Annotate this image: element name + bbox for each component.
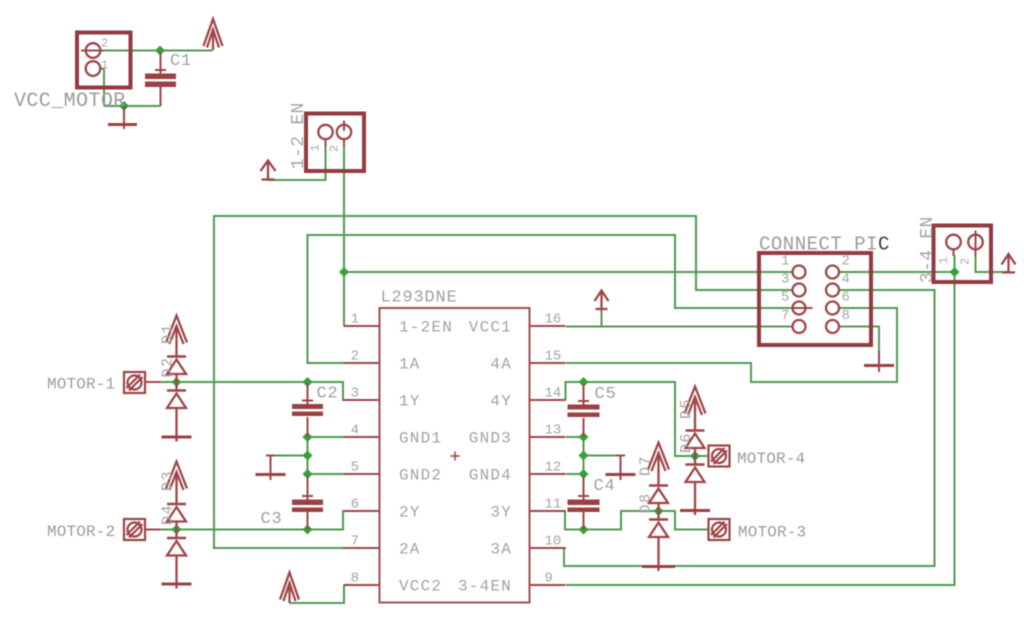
power VCC arrow (IC pin8 VCC2 net) <box>280 573 299 604</box>
diode D6 <box>686 456 705 515</box>
pin 16 (VCC1) <box>530 325 566 327</box>
svg-text:D4: D4 <box>160 504 177 525</box>
screw terminal MOTOR-2 <box>124 519 160 540</box>
power VCC arrow (diode D7 column) <box>648 443 669 486</box>
svg-text:CONNECT_PIC: CONNECT_PIC <box>759 234 890 256</box>
svg-text:VCC2: VCC2 <box>399 578 442 596</box>
wire 3-4EN pin2 to VCC arrow <box>976 255 1009 272</box>
IC U1 L293DNE body <box>380 308 530 603</box>
svg-text:4: 4 <box>842 272 850 288</box>
svg-text:1-2EN: 1-2EN <box>399 319 453 337</box>
wire VCC arrow stem at pin16 net <box>601 309 603 327</box>
connector 3-4 EN <box>934 226 992 283</box>
wire GND run to C1 bottom <box>104 105 161 107</box>
wire net EN12 to CONNECT_PIC pin1 <box>344 271 793 273</box>
wire ground branch right <box>584 455 621 457</box>
svg-text:MOTOR-4: MOTOR-4 <box>737 450 805 468</box>
ground (left capacitor chain) <box>256 456 286 481</box>
power VCC arrow (1-2EN pin1) <box>261 161 276 181</box>
wire GND chain right C5-C4 <box>583 437 585 474</box>
ground (CONNECT_PIC pin8) <box>864 351 894 372</box>
wire IC pin14 4Y to MOTOR-4 <box>566 382 709 456</box>
svg-text:2Y: 2Y <box>399 504 421 522</box>
capacitor C4 <box>568 476 600 530</box>
svg-text:C2: C2 <box>317 385 339 404</box>
diode D8 <box>649 511 668 571</box>
svg-text:5: 5 <box>781 290 789 306</box>
IC origin cross <box>451 452 460 461</box>
wire IC pin12 GND4 <box>566 473 584 475</box>
svg-text:6: 6 <box>842 290 850 306</box>
power VCC arrow (diode D1 column) <box>166 316 187 357</box>
pin 15 (4A) <box>530 362 566 364</box>
wire IC pin10 3A to CONNECT_PIC pin4 <box>564 290 935 566</box>
screw terminal MOTOR-4 <box>709 446 730 467</box>
junction node MOTOR-1 at C2 <box>303 377 313 387</box>
wire CONNECT_PIC pin8 to ground <box>839 327 880 352</box>
power VCC arrow (IC pin16 VCC1 net) <box>595 291 609 310</box>
junction node MOTOR-1 at diodes <box>172 377 182 387</box>
svg-text:1: 1 <box>781 254 789 270</box>
pin 8 (VCC2) <box>344 584 380 586</box>
svg-text:13: 13 <box>545 423 562 439</box>
svg-text:GND2: GND2 <box>399 467 442 485</box>
svg-text:D6: D6 <box>678 432 695 453</box>
svg-text:VCC1: VCC1 <box>469 319 512 337</box>
pin 12 (GND4) <box>530 473 566 475</box>
ground (diode D4) <box>162 583 192 586</box>
svg-text:1: 1 <box>309 144 323 151</box>
svg-text:GND4: GND4 <box>469 467 512 485</box>
svg-text:D3: D3 <box>160 470 177 491</box>
svg-text:5: 5 <box>351 460 359 476</box>
wire 3-4EN pin1 down to IC pin9 <box>566 255 955 585</box>
svg-text:1: 1 <box>937 257 951 264</box>
capacitor C3 <box>292 476 323 530</box>
wire IC pin5 GND2 <box>308 473 344 475</box>
ground (C1 / VCC_MOTOR pin1) <box>108 106 137 129</box>
svg-text:4A: 4A <box>490 356 512 374</box>
wire IC pin16 VCC1 to CONNECT_PIC pin7 <box>566 326 793 328</box>
svg-text:C4: C4 <box>594 477 616 496</box>
pin 7 (2A) <box>344 547 380 549</box>
wire IC pin2 1A to CONNECT_PIC pin5 <box>308 235 793 363</box>
svg-text:16: 16 <box>545 312 562 328</box>
pin 2 (1A) <box>344 362 380 364</box>
svg-text:2: 2 <box>328 145 342 152</box>
junction node GND1 <box>303 432 313 442</box>
svg-text:L293DNE: L293DNE <box>381 289 458 308</box>
svg-text:14: 14 <box>545 386 562 402</box>
wire CONNECT_PIC pin2 to 3-4EN pin1 junction <box>839 271 955 273</box>
junction node MOTOR-3 at diodes <box>654 506 664 516</box>
svg-text:3-4EN: 3-4EN <box>458 578 512 596</box>
svg-text:MOTOR-3: MOTOR-3 <box>738 524 806 542</box>
wire 1-2EN pin2 down to IC pin1 <box>343 146 345 326</box>
connector CONNECT_PIC <box>759 253 871 345</box>
svg-text:D1: D1 <box>160 323 177 344</box>
svg-text:C5: C5 <box>595 385 617 404</box>
svg-text:MOTOR-1: MOTOR-1 <box>47 376 115 394</box>
svg-text:D2: D2 <box>160 356 177 377</box>
diode D1 <box>167 357 186 383</box>
svg-text:MOTOR-2: MOTOR-2 <box>47 523 115 541</box>
svg-text:4Y: 4Y <box>490 393 512 411</box>
wire ground branch left <box>271 455 308 457</box>
diode D4 <box>167 530 186 589</box>
svg-text:2: 2 <box>959 258 973 265</box>
junction node EN12 <box>339 267 349 277</box>
connector VCC_MOTOR <box>77 33 131 88</box>
wire IC pin13 GND3 <box>566 436 584 438</box>
svg-text:4: 4 <box>351 423 359 439</box>
capacitor C2 <box>292 384 323 437</box>
svg-text:1: 1 <box>101 59 108 73</box>
pin 3 (1Y) <box>344 399 380 401</box>
junction node MOTOR-2 at C3 <box>303 525 313 535</box>
junction node gnd-branch left <box>303 451 313 461</box>
svg-text:VCC_MOTOR: VCC_MOTOR <box>14 90 126 113</box>
wire IC pin15 4A to CONNECT_PIC pin6 <box>566 308 897 382</box>
junction node 4Y at C5 <box>579 377 589 387</box>
svg-text:1-2 EN: 1-2 EN <box>289 102 309 169</box>
junction node C1 top <box>155 46 165 56</box>
svg-text:D7: D7 <box>638 455 655 476</box>
pin 11 (3Y) <box>530 510 566 512</box>
svg-text:7: 7 <box>351 534 359 550</box>
power VCC arrow (top, VCC_MOTOR net) <box>204 19 223 50</box>
svg-text:9: 9 <box>545 571 553 587</box>
svg-text:10: 10 <box>545 534 562 550</box>
junction node GND4 <box>579 469 589 479</box>
junction node EN34 <box>950 267 960 277</box>
pin 13 (GND3) <box>530 436 566 438</box>
svg-text:8: 8 <box>351 571 359 587</box>
wire GND chain left C2-C3 <box>307 437 309 474</box>
svg-text:3Y: 3Y <box>490 504 512 522</box>
wire 1-2EN pin1 to VCC arrow <box>268 146 326 180</box>
svg-text:12: 12 <box>545 460 562 476</box>
wire IC pin11 3Y to MOTOR-3 <box>565 511 709 530</box>
svg-text:11: 11 <box>545 497 562 513</box>
pin 14 (4Y) <box>530 399 566 401</box>
capacitor C5 <box>568 384 600 437</box>
wire IC pin4 GND1 <box>308 436 344 438</box>
junction node C1 gnd <box>119 101 129 111</box>
diode D3 <box>167 504 186 530</box>
svg-text:1A: 1A <box>399 356 421 374</box>
svg-text:D8: D8 <box>638 492 655 513</box>
screw terminal MOTOR-3 <box>709 519 730 540</box>
pin 5 (GND2) <box>344 473 380 475</box>
wire IC pin7 2A to CONNECT_PIC pin3 <box>214 216 793 548</box>
junction node gnd-branch right <box>579 451 589 461</box>
pin 10 (3A) <box>530 547 566 549</box>
power VCC arrow (diode D3 column) <box>166 462 187 505</box>
wire MOTOR-2 to IC pin6 2Y <box>160 511 345 530</box>
svg-text:15: 15 <box>545 349 562 365</box>
junction node MOTOR-2 at diodes <box>172 525 182 535</box>
svg-text:D5: D5 <box>678 398 695 419</box>
svg-text:1: 1 <box>351 312 359 328</box>
diode D2 <box>167 382 186 442</box>
pin 4 (GND1) <box>344 436 380 438</box>
wire MOTOR-1 to IC pin3 1Y <box>160 382 345 400</box>
svg-text:3: 3 <box>351 386 359 402</box>
diode D5 <box>686 431 705 457</box>
svg-text:6: 6 <box>351 497 359 513</box>
ground (diode D6) <box>680 509 710 512</box>
diode D7 <box>649 486 668 512</box>
ground (diode D2) <box>162 436 192 439</box>
pin 6 (2Y) <box>344 510 380 512</box>
connector 1-2 EN <box>306 114 364 172</box>
svg-text:GND1: GND1 <box>399 430 442 448</box>
junction node MOTOR-4 at diodes <box>690 451 700 461</box>
pin 1 (1-2EN) <box>344 325 380 327</box>
capacitor C1 <box>145 52 176 106</box>
junction node MOTOR-3 at C4 <box>579 525 589 535</box>
svg-text:3: 3 <box>781 272 789 288</box>
ground (diode D8) <box>642 565 675 568</box>
svg-text:7: 7 <box>781 308 789 324</box>
svg-text:8: 8 <box>842 308 850 324</box>
svg-text:GND3: GND3 <box>469 430 512 448</box>
screw terminal MOTOR-1 <box>124 372 160 393</box>
svg-text:2: 2 <box>842 254 850 270</box>
svg-text:2A: 2A <box>399 541 421 559</box>
svg-text:C1: C1 <box>170 52 192 71</box>
junction node GND3 <box>579 432 589 442</box>
pin 9 (3-4EN) <box>530 584 566 586</box>
svg-text:C3: C3 <box>261 510 283 529</box>
junction node GND2 <box>303 469 313 479</box>
power VCC arrow (diode D5 column) <box>685 387 706 431</box>
wire IC pin8 VCC2 to VCC arrow <box>290 585 345 603</box>
ground (right capacitor chain) <box>606 456 636 481</box>
wire VCC_MOTOR pin1 down <box>103 69 105 107</box>
svg-text:1Y: 1Y <box>399 393 421 411</box>
svg-text:2: 2 <box>351 349 359 365</box>
svg-text:3-4 EN: 3-4 EN <box>918 216 938 283</box>
svg-text:2: 2 <box>101 37 108 51</box>
svg-text:3A: 3A <box>490 541 512 559</box>
wire VCC_MOTOR pin2 to C1/VCC <box>103 50 213 52</box>
power VCC arrow (3-4EN pin2) <box>1002 254 1016 272</box>
